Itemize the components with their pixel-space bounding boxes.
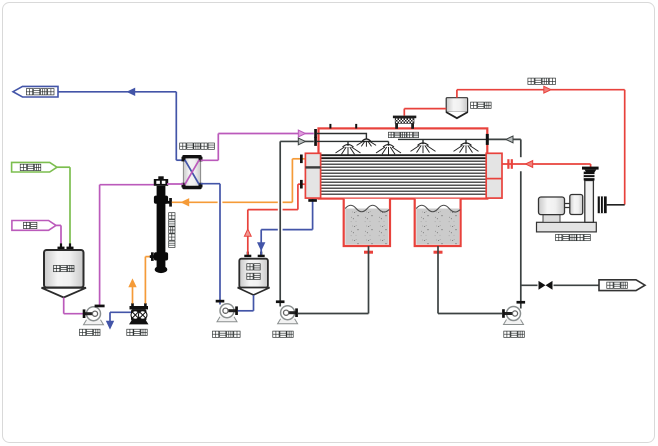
spray nozzle 1: [336, 145, 361, 155]
spray header right: [398, 139, 486, 144]
wire dark concentrate branch: [521, 284, 599, 286]
pump 出料泵 (discharge pump): [502, 307, 524, 338]
wire blue plate HX bottom-right to distilled pump: [201, 184, 221, 305]
left channel cap: [305, 153, 320, 198]
wire dark tank1 to circulation pump: [298, 246, 369, 314]
valve bowtie on concentrate line: [539, 281, 553, 290]
wire magenta raw liquid line: [56, 225, 61, 248]
flange red on steam line: [507, 159, 513, 169]
valve red tick tank1 drain: [364, 251, 373, 254]
pump 真空泵 (vacuum pump): [127, 303, 149, 335]
machine 蒸汽压缩机 (steam compressor): [537, 167, 607, 241]
wire dark circulation pump riser: [276, 138, 314, 307]
nozzle ticks on raw tank top: [58, 243, 74, 249]
wire magenta tank to feed pump: [64, 298, 83, 314]
wire magenta feed pump discharge riser: [100, 185, 156, 307]
vessel shell 降膜蒸发器 (falling film evaporator) red shell: [319, 128, 488, 198]
wire red distilled tank to left cap: [244, 184, 304, 255]
wire magenta plate HX top-right to evaporator spray inlet: [201, 130, 314, 160]
sump tank 2: [415, 199, 461, 246]
wire dark tank2 to discharge pump: [438, 246, 502, 314]
wire blue vacuum pump drain: [107, 312, 131, 328]
flange ticks on left cap: [300, 155, 317, 202]
label pentagon 浓缩液 (concentrate out): [599, 280, 645, 291]
tube bundle: [321, 155, 487, 194]
wire blue distilled water out line: [58, 88, 183, 160]
heat-exchanger 管式换热器 (tube heat exchanger): [150, 176, 175, 273]
pump 循环泵 (circulation pump): [273, 306, 298, 338]
separator 分离器: [446, 98, 468, 119]
spray nozzle 4: [454, 143, 479, 153]
pump 进料泵 (feed pump): [80, 307, 104, 336]
pump 蒸馏水泵 (distilled water pump): [213, 300, 241, 338]
heat-exchanger 板式换热器 (plate heat exchanger): [180, 143, 215, 189]
wire dark discharge riser: [517, 139, 526, 308]
flange ticks at spray inlets: [314, 129, 317, 146]
spray nozzle 2: [376, 145, 401, 155]
wire orange vacuum pump vent: [129, 280, 136, 304]
right channel cap: [486, 153, 502, 198]
spray nozzle up-fountain: [357, 139, 377, 147]
label pentagon 清洗水 (cleaning water): [12, 162, 57, 172]
spray header lower: [317, 141, 389, 145]
spray header upper: [317, 134, 366, 140]
spray nozzle 3: [411, 143, 436, 153]
vapor dome cap with hatch: [393, 116, 416, 129]
wire dark compressor suction: [607, 204, 625, 206]
tee on feed pump discharge: [95, 305, 105, 308]
tank 蒸馏水罐 (distilled water tank): [238, 252, 270, 295]
valve red tick tank2 drain: [434, 251, 443, 254]
wire gray concentrate recirc top line: [486, 134, 521, 145]
wire orange vacuum pump suction: [145, 257, 151, 304]
label 二次蒸汽 (secondary steam): [528, 78, 556, 84]
label pentagon 原液 (raw liquid): [12, 221, 56, 231]
label 降膜蒸发器: [388, 132, 418, 137]
nub ticks on shell top: [329, 124, 357, 129]
wire red compressor discharge to right cap: [502, 161, 591, 170]
label 分离器 text: [471, 102, 491, 108]
wire red separator top secondary steam line: [457, 86, 625, 204]
label pentagon 蒸馏水出 (distilled water out): [13, 86, 58, 97]
wire magenta plate HX bottom-left to tube HX: [167, 183, 183, 185]
wire orange tube HX to left cap: [172, 159, 305, 206]
wire red evaporator dome to separator: [404, 109, 446, 116]
wire green cleaning water line: [57, 167, 70, 248]
wire red corner at compressor: [586, 163, 591, 165]
wire blue left cap condensate to distilled tank: [258, 199, 313, 255]
sump tank 1: [344, 199, 390, 246]
tank 原料罐 (raw material tank): [42, 250, 87, 298]
wire blue distilled tank to pump: [238, 295, 254, 311]
